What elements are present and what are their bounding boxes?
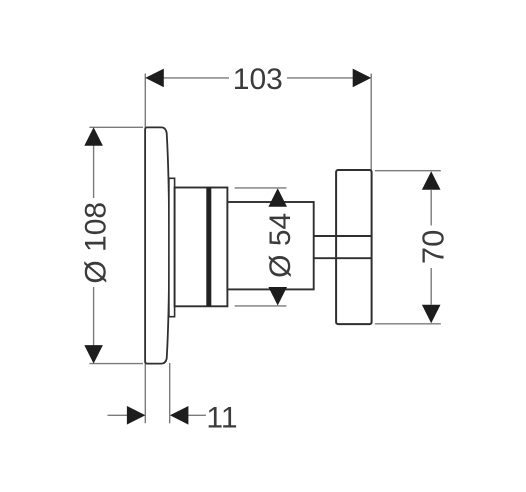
svg-text:Ø 108: Ø 108 [79, 202, 112, 284]
svg-text:Ø 54: Ø 54 [264, 213, 297, 278]
svg-text:70: 70 [416, 230, 451, 264]
svg-text:103: 103 [233, 63, 283, 96]
svg-text:11: 11 [206, 401, 237, 434]
